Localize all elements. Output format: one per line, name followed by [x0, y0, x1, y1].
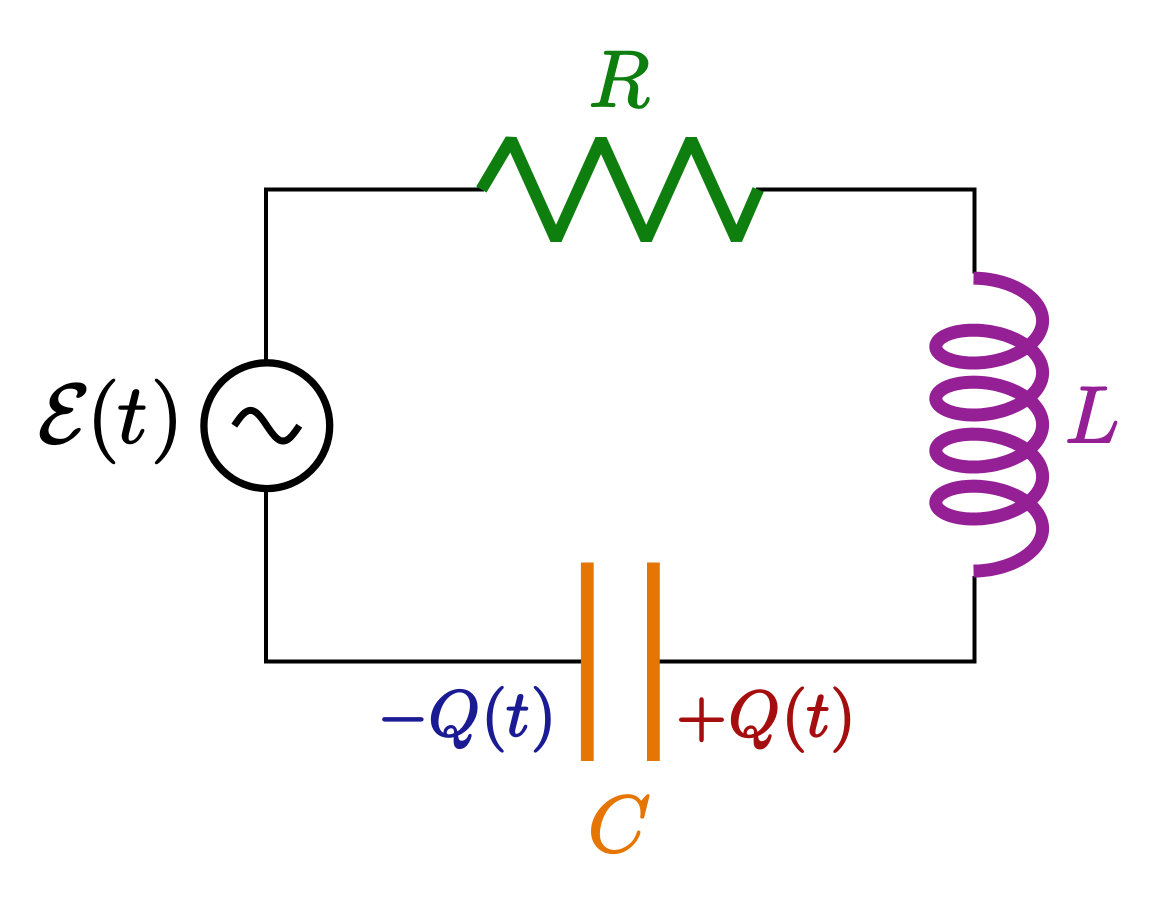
resistor R zigzag — [481, 140, 758, 240]
label C — [592, 795, 649, 853]
wire right vertical upper — [973, 188, 977, 274]
AC source sine symbol — [234, 410, 299, 441]
wire top-right segment — [756, 188, 977, 192]
label L — [1068, 387, 1117, 442]
capacitor C right plate — [647, 563, 660, 762]
AC source circle — [204, 363, 330, 489]
label R — [592, 52, 649, 109]
wire bottom-left segment — [264, 660, 583, 664]
capacitor C left plate — [581, 563, 594, 762]
wire bottom-right segment — [658, 660, 977, 664]
label EMF E(t) — [40, 379, 175, 463]
wire top-left segment — [264, 188, 484, 192]
wire right vertical lower — [973, 576, 977, 664]
wire left vertical — [264, 188, 268, 664]
label +Q(t) — [680, 687, 849, 752]
label -Q(t) — [383, 687, 550, 752]
inductor L coil — [936, 278, 1043, 571]
